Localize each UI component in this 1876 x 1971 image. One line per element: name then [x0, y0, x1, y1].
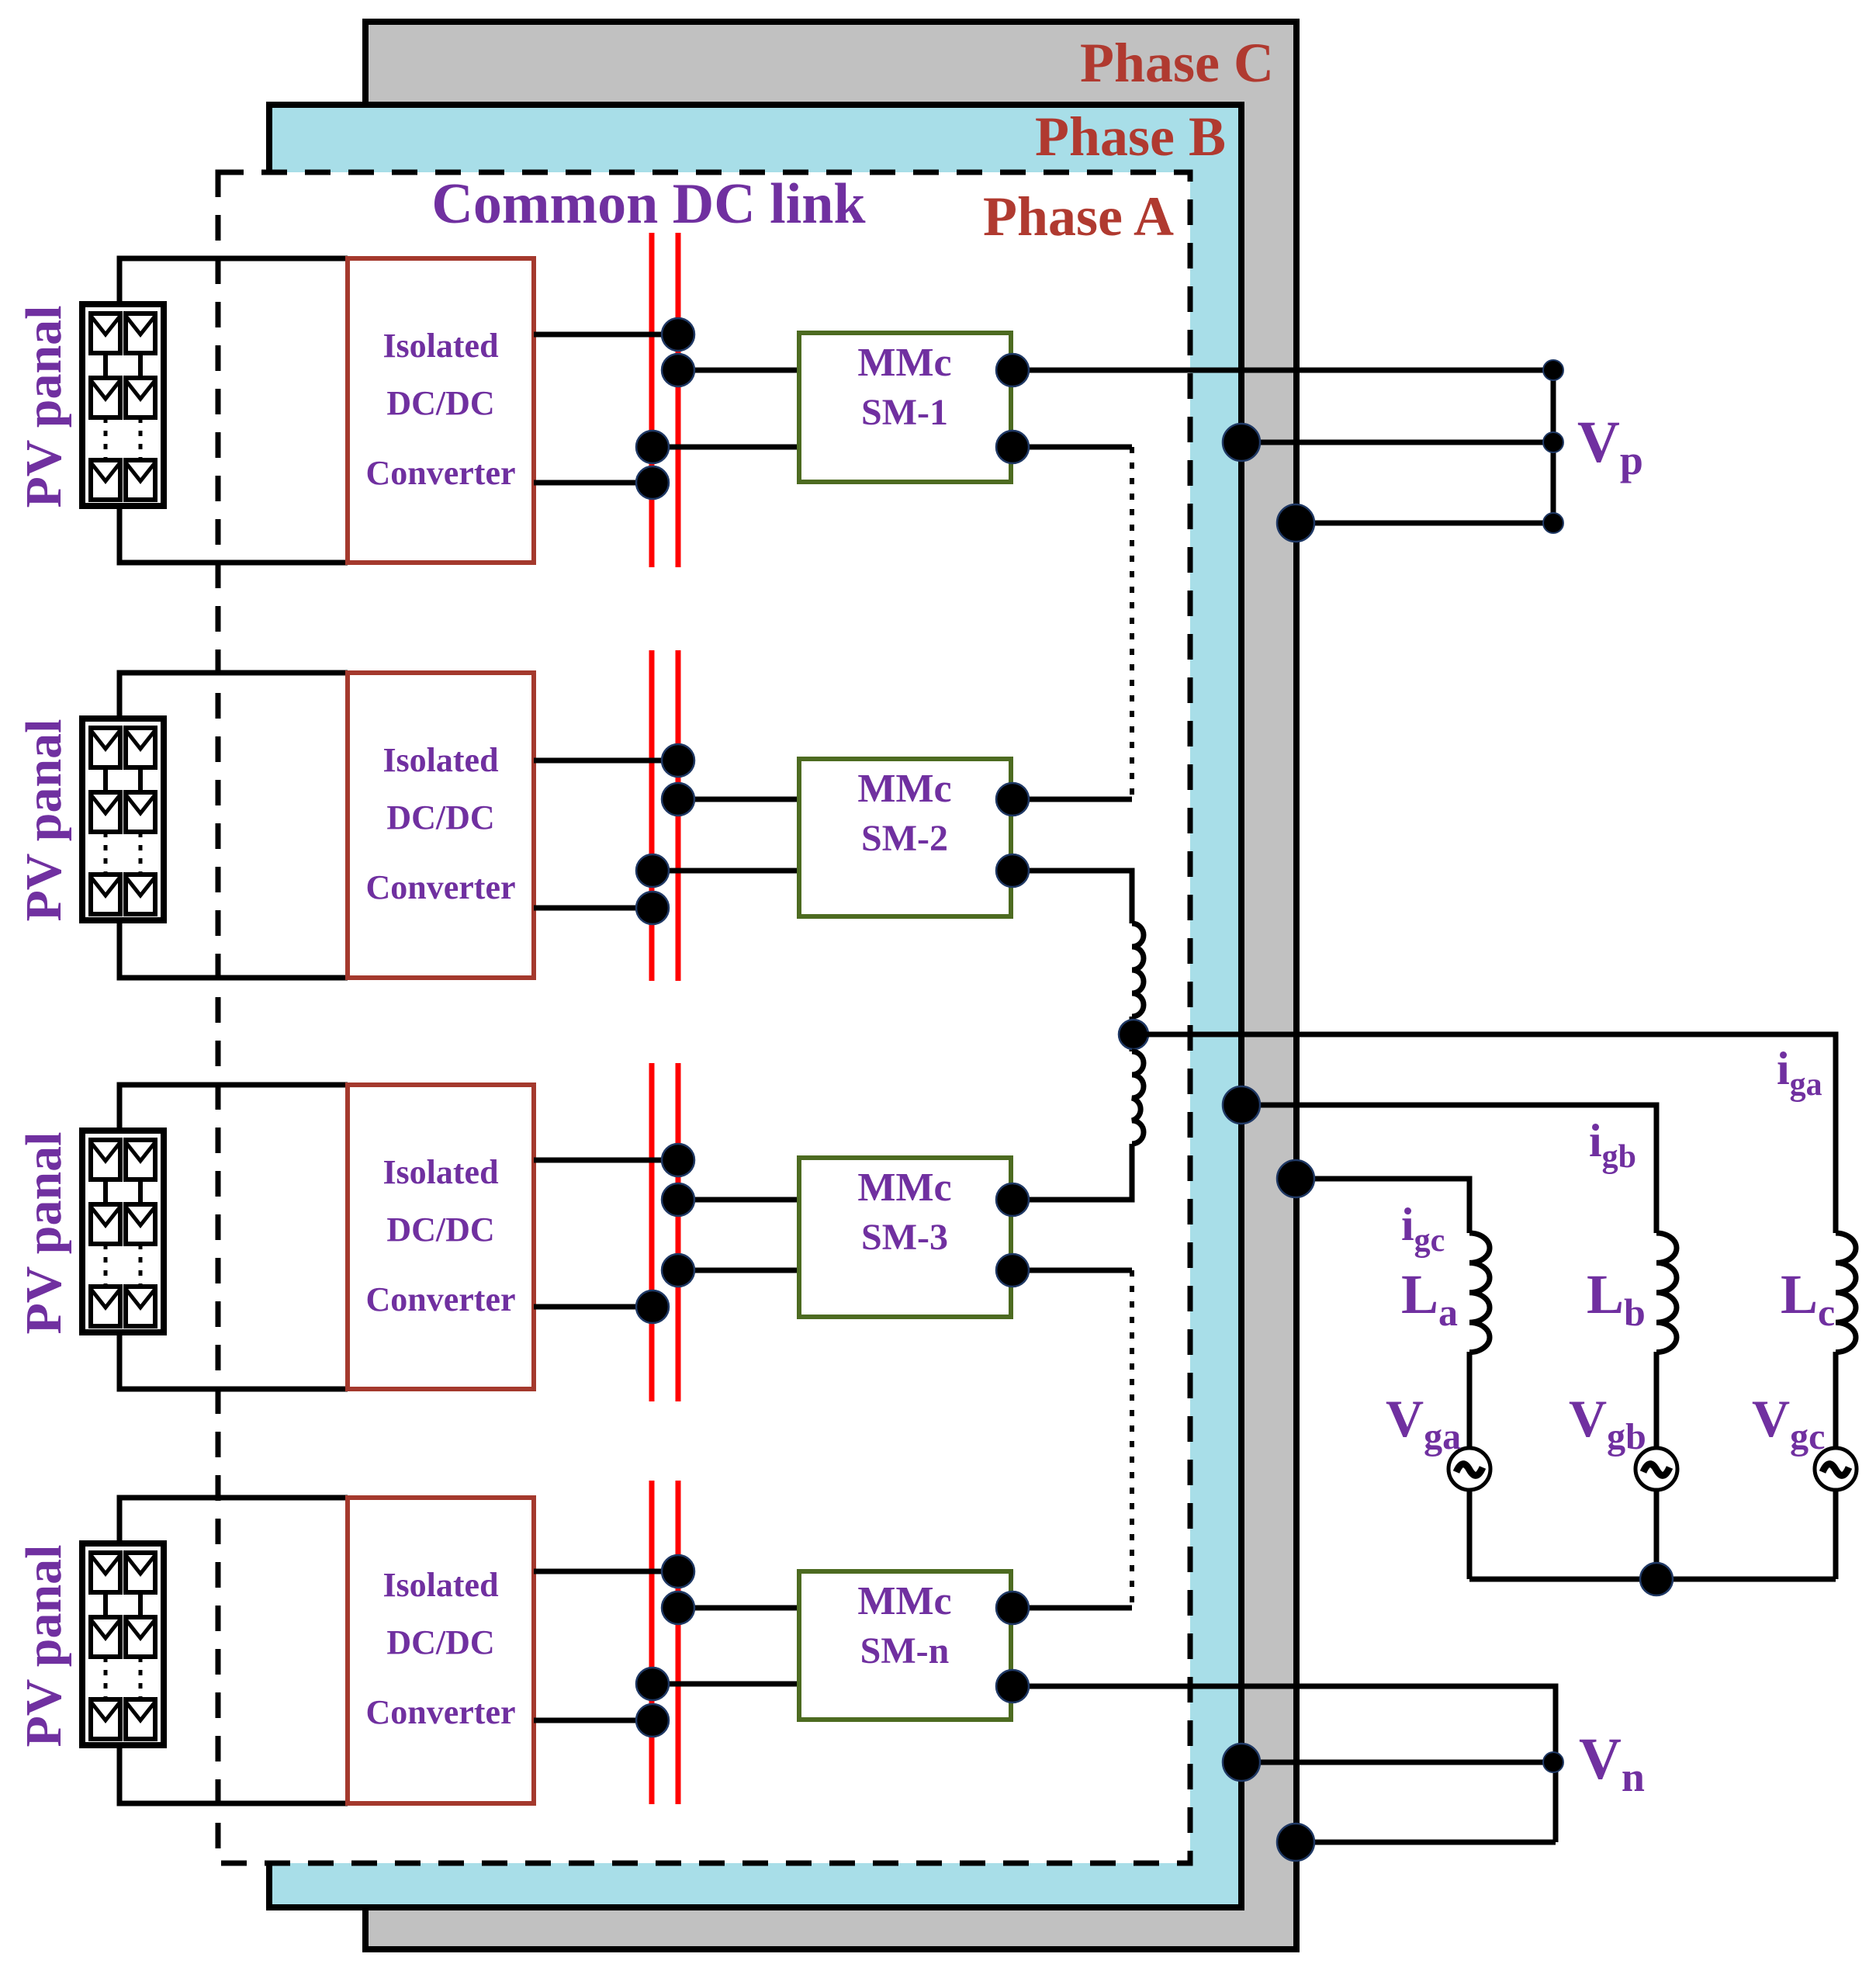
UNIT4: [82, 1498, 1011, 1803]
svg-text:Converter: Converter: [365, 1693, 515, 1731]
wire: bus to MMc SM-1 lower input: [652, 445, 799, 450]
svg-text:DC/DC: DC/DC: [386, 1623, 494, 1661]
wire: bus to MMc SM-2 lower input: [652, 868, 799, 874]
PV cell 3.1.2: [91, 1204, 120, 1244]
node: grid neutral junction: [1640, 1563, 1673, 1595]
PV cell 1.2.2: [126, 378, 155, 417]
node: Vp bottom: [1543, 513, 1563, 533]
wire: SM-1 lower output stub: [1011, 445, 1132, 450]
node: U2 DC+ bus junction: [662, 744, 694, 777]
node: SM-1 lower output: [996, 431, 1029, 463]
wire: PV panel 2 bottom loop: [119, 920, 348, 978]
svg-text:Isolated: Isolated: [382, 1153, 498, 1191]
PV cell link solid 4.1: [103, 1592, 108, 1617]
PV cell link solid 3.1: [103, 1179, 108, 1204]
node: MMc SM-n upper input bus junction: [662, 1592, 694, 1624]
wire: phase A AC node to grid branch (iga): [1134, 1034, 1836, 1233]
svg-text:MMc: MMc: [857, 767, 951, 811]
wire: Vgc to neutral: [1833, 1490, 1839, 1579]
PV cell 3.2.3: [126, 1287, 155, 1326]
wire: SM-3 lower output stub: [1011, 1268, 1132, 1273]
wire: dotted series link SM-1 to SM-2: [1130, 447, 1134, 799]
wire: SM-n lower output to Vn bus: [1011, 1686, 1556, 1842]
svg-text:MMc: MMc: [857, 1579, 951, 1623]
MMc SM-3 box: [799, 1158, 1011, 1317]
PV cell 1.2.3: [126, 460, 155, 500]
wire: U4 DC+ output to bus: [534, 1569, 678, 1574]
wire: bus to MMc SM-n lower input: [652, 1682, 799, 1687]
PV cell 4.2.1: [126, 1553, 155, 1592]
wire: Vga to neutral: [1467, 1490, 1473, 1579]
wire: U4 DC- output to bus: [534, 1718, 652, 1723]
node: MMc SM-3 lower input bus junction: [662, 1254, 694, 1287]
wire: Lb to Vgb source: [1654, 1352, 1660, 1448]
node: phase A AC output: [1119, 1020, 1148, 1049]
PV cell 4.1.1: [91, 1553, 120, 1592]
PV cell 1.1.3: [91, 460, 120, 500]
PV panel 3 outer box: [82, 1131, 164, 1332]
PV cell link solid 2.2: [138, 767, 143, 792]
PV cell 2.1.1: [91, 728, 120, 767]
wire: U2 DC- output to bus: [534, 906, 652, 911]
inductor La coil: [1469, 1233, 1490, 1353]
wire: U3 DC- output to bus: [534, 1304, 652, 1310]
node: phase B bottom terminal: [1223, 1744, 1260, 1781]
PV cell 3.2.1: [126, 1140, 155, 1179]
wire: PV panel 4 top loop: [119, 1498, 348, 1543]
node: MMc SM-3 upper input bus junction: [662, 1183, 694, 1216]
PV cell 4.2.2: [126, 1617, 155, 1657]
svg-text:DC/DC: DC/DC: [386, 1211, 494, 1249]
node: U3 DC+ bus junction: [662, 1144, 694, 1176]
MMc SM-2 box: [799, 759, 1011, 916]
svg-text:PV panal: PV panal: [16, 1131, 72, 1334]
node: U3 DC- bus junction: [636, 1290, 669, 1323]
label: MMc SM-3: [857, 1166, 951, 1258]
UNIT3: [82, 1085, 1011, 1389]
node: MMc SM-1 lower input bus junction: [636, 431, 669, 463]
label: Isolated DC/DC Converter U3: [365, 1153, 515, 1318]
PV cell link dotted 1.1: [104, 417, 108, 460]
source Vgb circle: [1635, 1448, 1677, 1490]
PV cell 2.1.2: [91, 792, 120, 832]
PV cell link dotted 3.2: [139, 1244, 143, 1287]
wire: phase C bottom terminal to Vn: [1296, 1840, 1556, 1845]
source Vga circle: [1449, 1448, 1490, 1490]
PV cell link dotted 1.2: [139, 417, 143, 460]
PV cell 4.1.2: [91, 1617, 120, 1657]
wire: SM-2 upper output stub: [1011, 797, 1132, 802]
svg-text:DC/DC: DC/DC: [386, 798, 494, 837]
svg-text:MMc: MMc: [857, 341, 951, 385]
svg-text:SM-3: SM-3: [861, 1217, 948, 1258]
svg-text:PV panal: PV panal: [16, 719, 72, 921]
converter box U4 (Isolated DC/DC Converter): [348, 1498, 534, 1803]
label: Isolated DC/DC Converter U2: [365, 741, 515, 906]
label: Isolated DC/DC Converter U1: [365, 327, 515, 492]
wire: phase B terminal to grid branch (igb): [1241, 1105, 1656, 1233]
wire: coil to AC node: [1130, 1017, 1135, 1051]
inductor: phase A upper arm coil: [1132, 923, 1144, 1017]
wire: phase B top terminal to Vp: [1241, 440, 1553, 445]
wire: U1 DC- output to bus: [534, 480, 652, 486]
wire: U2 DC+ output to bus: [534, 758, 678, 764]
svg-text:Common DC link: Common DC link: [431, 172, 866, 236]
PV cell 1.2.1: [126, 313, 155, 353]
node: phase B top terminal: [1223, 424, 1260, 461]
PV cell 1.1.1: [91, 313, 120, 353]
wire: SM-2 lower output to arm inductor: [1011, 871, 1132, 923]
DC bus red line left: [652, 233, 678, 1804]
RIGHTSIDE: [996, 354, 1857, 1861]
node: SM-n upper output: [996, 1592, 1029, 1624]
wire: grid neutral bottom: [1469, 1577, 1836, 1582]
wire: bus to MMc SM-3 lower input: [678, 1268, 799, 1273]
PV cell 3.2.2: [126, 1204, 155, 1244]
converter box U2 (Isolated DC/DC Converter): [348, 673, 534, 978]
PV cell link solid 1.1: [103, 353, 108, 378]
svg-text:Phase C: Phase C: [1080, 32, 1274, 94]
svg-text:Phase B: Phase B: [1035, 106, 1226, 168]
node: U4 DC- bus junction: [636, 1704, 669, 1737]
svg-text:PV panal: PV panal: [16, 305, 72, 507]
Phase C region (gray): [365, 22, 1296, 1949]
node: U4 DC+ bus junction: [662, 1555, 694, 1588]
PV cell 3.1.3: [91, 1287, 120, 1326]
svg-text:SM-n: SM-n: [860, 1630, 950, 1671]
PV cell link dotted 2.1: [104, 832, 108, 875]
wire: phase B bottom terminal to Vn: [1241, 1760, 1553, 1765]
PV cell 4.1.3: [91, 1699, 120, 1739]
label: MMc SM-2: [857, 767, 951, 859]
wire: PV panel 3 top loop: [119, 1085, 348, 1131]
node: U1 DC+ bus junction: [662, 318, 694, 351]
UNIT2: [82, 673, 1011, 978]
node: Vn middle: [1543, 1752, 1563, 1772]
wire: Vgb to neutral: [1654, 1490, 1660, 1579]
PV panel 4 outer box: [82, 1543, 164, 1745]
svg-text:Converter: Converter: [365, 1280, 515, 1318]
wire: SM-1 positive output to Vp (phase A top terminal): [1011, 368, 1553, 373]
PV cell link dotted 4.2: [139, 1657, 143, 1699]
svg-text:Isolated: Isolated: [382, 327, 498, 365]
node: phase C bottom terminal: [1277, 1824, 1314, 1861]
node: Vp middle: [1543, 432, 1563, 452]
PV cell 2.1.3: [91, 875, 120, 914]
source Vgc circle: [1815, 1448, 1857, 1490]
svg-text:SM-2: SM-2: [861, 818, 948, 859]
wire: Lc to Vgc source: [1833, 1352, 1839, 1448]
inductor Lb coil: [1656, 1233, 1677, 1353]
Phase A region (white, dashed): [218, 172, 1190, 1863]
wire: PV panel 4 bottom loop: [119, 1745, 348, 1803]
label: MMc SM-1: [857, 341, 951, 433]
wire: Vp vertical bus: [1551, 370, 1556, 523]
node: U1 DC- bus junction: [636, 466, 669, 499]
svg-text:Isolated: Isolated: [382, 1566, 498, 1604]
PV cell 2.2.3: [126, 875, 155, 914]
wire: bus to MMc SM-2 upper input: [678, 797, 799, 802]
wire: PV panel 3 bottom loop: [119, 1332, 348, 1389]
node: MMc SM-2 upper input bus junction: [662, 783, 694, 816]
wire: bus to MMc SM-3 upper input: [678, 1197, 799, 1203]
node: MMc SM-2 lower input bus junction: [636, 854, 669, 887]
PV cell 2.2.2: [126, 792, 155, 832]
wire: phase C terminal to grid branch (igc): [1296, 1179, 1469, 1233]
wire: PV panel 2 top loop: [119, 673, 348, 719]
svg-text:Converter: Converter: [365, 868, 515, 906]
svg-text:MMc: MMc: [857, 1166, 951, 1210]
PV cell link dotted 4.1: [104, 1657, 108, 1699]
node: Vp top: [1543, 360, 1563, 380]
PV cell link dotted 3.1: [104, 1244, 108, 1287]
wire: U3 DC+ output to bus: [534, 1158, 678, 1163]
inductor: phase A lower arm coil: [1132, 1051, 1144, 1144]
node: phase B grid terminal: [1223, 1086, 1260, 1124]
wire: SM-n upper output stub: [1011, 1606, 1132, 1611]
wire: PV panel 1 bottom loop: [119, 506, 348, 563]
node: SM-2 lower output: [996, 854, 1029, 887]
inductor Lc coil: [1836, 1233, 1856, 1353]
svg-text:DC/DC: DC/DC: [386, 384, 494, 422]
PV cell 3.1.1: [91, 1140, 120, 1179]
svg-text:Phase A: Phase A: [983, 185, 1174, 248]
node: U2 DC- bus junction: [636, 892, 669, 924]
node: SM-3 upper output: [996, 1183, 1029, 1216]
node: SM-n lower output: [996, 1670, 1029, 1703]
node: SM-3 lower output: [996, 1254, 1029, 1287]
PV cell 1.1.2: [91, 378, 120, 417]
converter box U3 (Isolated DC/DC Converter): [348, 1085, 534, 1389]
wire: dotted series link SM-3 to SM-n: [1130, 1270, 1134, 1608]
PV panel 2 outer box: [82, 719, 164, 920]
MMc SM-n box: [799, 1571, 1011, 1720]
node: SM-1 positive output: [996, 354, 1029, 386]
wire: La to Vga source: [1467, 1352, 1473, 1448]
PV cell link solid 3.2: [138, 1179, 143, 1204]
node: phase C top terminal: [1277, 504, 1314, 542]
svg-text:SM-1: SM-1: [861, 392, 948, 433]
svg-text:Isolated: Isolated: [382, 741, 498, 779]
node: phase C grid terminal: [1277, 1160, 1314, 1197]
svg-text:PV panal: PV panal: [16, 1544, 72, 1747]
wire: bus to MMc SM-n upper input: [678, 1606, 799, 1611]
wire: phase C top terminal to Vp: [1296, 521, 1553, 526]
svg-text:Converter: Converter: [365, 454, 515, 492]
node: MMc SM-1 upper input bus junction: [662, 354, 694, 386]
wire: bus to MMc SM-1 upper input: [678, 368, 799, 373]
PV panel 1 outer box: [82, 304, 164, 506]
UNIT1: [82, 258, 1011, 563]
wire: U1 DC+ output to bus: [534, 332, 678, 338]
Phase B region (cyan): [269, 105, 1241, 1907]
MMc SM-1 box: [799, 333, 1011, 482]
PV cell link solid 4.2: [138, 1592, 143, 1617]
PV cell 4.2.3: [126, 1699, 155, 1739]
PV cell link dotted 2.2: [139, 832, 143, 875]
node: SM-2 upper output: [996, 783, 1029, 816]
PV cell link solid 1.2: [138, 353, 143, 378]
PV cell link solid 2.1: [103, 767, 108, 792]
wire: PV panel 1 top loop: [119, 258, 348, 304]
label: Isolated DC/DC Converter U4: [365, 1566, 515, 1731]
PV cell 2.2.1: [126, 728, 155, 767]
wire: lower arm to SM-3 upper output: [1011, 1144, 1132, 1200]
node: MMc SM-n lower input bus junction: [636, 1668, 669, 1700]
label: MMc SM-n: [857, 1579, 951, 1671]
converter box U1 (Isolated DC/DC Converter): [348, 258, 534, 563]
